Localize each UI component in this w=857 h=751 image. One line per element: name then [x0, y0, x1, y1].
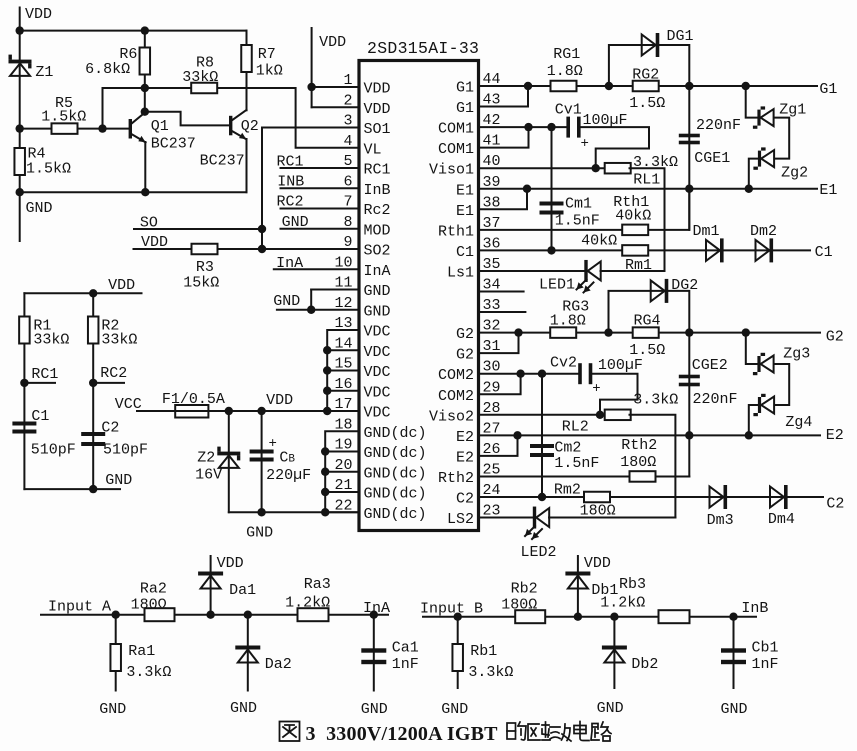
wire GND stub below label: [19, 192, 21, 241]
wire input B main line: [423, 616, 756, 618]
resistor R4: [14, 148, 25, 175]
svg-text:510pF: 510pF: [103, 442, 148, 459]
svg-text:GND: GND: [364, 283, 391, 300]
wire C1 line: [479, 249, 624, 251]
wire Ls1/LED1 line: [479, 270, 585, 272]
svg-text:COM1: COM1: [438, 121, 474, 138]
junction CGE1/Rth1/E1: [685, 185, 693, 193]
svg-text:Z2: Z2: [197, 450, 215, 467]
svg-text:VL: VL: [364, 141, 382, 158]
svg-text:+: +: [269, 436, 277, 452]
junction Z2 top: [225, 407, 233, 415]
svg-text:Dm2: Dm2: [750, 223, 777, 240]
svg-text:InB: InB: [741, 600, 768, 617]
svg-text:GND: GND: [361, 701, 388, 718]
junction Q1 collector node: [141, 108, 149, 116]
diode Dm3: [710, 485, 728, 509]
svg-text:COM2: COM2: [438, 388, 474, 405]
wire Db2 vertical: [613, 617, 615, 688]
svg-text:22: 22: [334, 497, 352, 514]
wire Rth1 right to E1: [648, 189, 690, 230]
svg-text:VDD: VDD: [266, 392, 293, 409]
svg-text:4: 4: [343, 133, 352, 150]
wire Q2 collector vertical to R7: [246, 73, 248, 111]
wire Ca1 vertical: [373, 615, 375, 691]
wire Q1 emitter vertical: [144, 142, 146, 192]
svg-text:Dm3: Dm3: [707, 512, 734, 529]
resistor R5: [52, 123, 78, 134]
resistor Rth1: [622, 225, 648, 236]
zener Zg2: [753, 147, 774, 169]
resistor Ra2: [145, 608, 175, 621]
svg-text:G2: G2: [456, 347, 474, 364]
svg-text:3 3300V/1200A IGBT: 3 3300V/1200A IGBT: [306, 723, 499, 745]
svg-text:15kΩ: 15kΩ: [183, 275, 219, 292]
wire Rb1 vertical: [457, 617, 459, 688]
svg-text:220nF: 220nF: [696, 117, 741, 134]
svg-text:1nF: 1nF: [392, 656, 419, 673]
svg-text:510pF: 510pF: [31, 442, 76, 459]
svg-text:E1: E1: [456, 203, 474, 220]
wire CB vertical: [261, 411, 263, 512]
resistor RL2: [605, 410, 631, 421]
junction VDC bus pin17: [323, 407, 331, 415]
svg-text:220nF: 220nF: [693, 391, 738, 408]
svg-text:Ra1: Ra1: [128, 643, 155, 660]
capacitor Cv1: [566, 117, 580, 138]
wire Zg2 to E1: [749, 159, 758, 189]
svg-text:11: 11: [334, 275, 352, 292]
svg-text:LED2: LED2: [521, 544, 557, 561]
svg-text:+: +: [592, 381, 600, 397]
wire G1 line mid: [576, 85, 634, 87]
resistor RG4: [633, 327, 659, 338]
svg-text:GND: GND: [364, 303, 391, 320]
wire Viso1/RL1 line: [479, 167, 607, 169]
svg-text:14: 14: [334, 335, 352, 352]
svg-text:Rth2: Rth2: [621, 437, 657, 454]
wire Db1 vertical: [577, 556, 579, 617]
svg-text:9: 9: [343, 234, 352, 251]
svg-text:F1/0.5A: F1/0.5A: [162, 391, 225, 408]
svg-text:1.5kΩ: 1.5kΩ: [26, 161, 71, 178]
junction Da2 node: [244, 611, 252, 619]
svg-text:33kΩ: 33kΩ: [101, 332, 137, 349]
resistor R3: [192, 244, 218, 255]
wire Q1-collector to Q2-base: [145, 112, 229, 126]
junction C2 bottom: [89, 485, 97, 493]
wire Rth2 right to E2: [655, 475, 689, 477]
svg-text:MOD: MOD: [364, 222, 391, 239]
wire pin31 stub: [479, 333, 519, 354]
svg-text:CGE2: CGE2: [692, 357, 728, 374]
svg-text:Cv1: Cv1: [555, 102, 582, 119]
wire pin8 stub: [281, 228, 360, 230]
svg-text:C2: C2: [826, 496, 844, 513]
svg-text:C2: C2: [101, 420, 119, 437]
wire Cv1 to Viso1 loop: [581, 127, 649, 168]
wire pin11 stub: [311, 289, 359, 291]
resistor R7: [241, 45, 252, 72]
svg-text:InA: InA: [364, 263, 391, 280]
junction GND(dc) bus pin20: [321, 468, 329, 476]
wire R1 column: [23, 293, 25, 489]
capacitor C1: [12, 422, 36, 434]
junction pin43/G1: [524, 82, 532, 90]
wire Ra1 vertical: [115, 615, 117, 691]
svg-text:BC237: BC237: [151, 136, 196, 153]
svg-text:VDC: VDC: [364, 405, 391, 422]
svg-text:19: 19: [334, 437, 352, 454]
transistor Q1: [129, 113, 146, 143]
wire pin41 stub: [479, 127, 529, 148]
svg-text:40kΩ: 40kΩ: [615, 208, 651, 225]
svg-text:Cb1: Cb1: [752, 640, 779, 657]
svg-text:Dm4: Dm4: [768, 511, 795, 528]
svg-text:Zg4: Zg4: [785, 414, 812, 431]
junction pin31/G2: [514, 328, 522, 336]
junction RC1: [20, 379, 28, 387]
svg-text:Viso2: Viso2: [429, 408, 474, 425]
wire VDD rail (left block): [24, 292, 141, 294]
capacitor Cm1: [540, 202, 564, 215]
diode DG2: [651, 279, 669, 303]
svg-text:G1: G1: [456, 80, 474, 97]
wire Q2 emitter vertical: [246, 139, 248, 192]
svg-text:6.8kΩ: 6.8kΩ: [85, 61, 130, 78]
svg-text:1.8Ω: 1.8Ω: [550, 313, 586, 330]
svg-text:Da2: Da2: [265, 656, 292, 673]
svg-text:12: 12: [334, 295, 352, 312]
capacitor CGE2: [679, 375, 700, 387]
capacitor Cb1: [721, 648, 746, 664]
junction Cm1 top: [547, 123, 555, 131]
zener Zg1: [753, 106, 774, 128]
svg-text:16: 16: [334, 376, 352, 393]
junction Q1 emitter/GND: [141, 188, 149, 196]
wire DG2 bypass: [609, 291, 690, 333]
svg-text:220µF: 220µF: [266, 467, 311, 484]
svg-text:15: 15: [334, 356, 352, 373]
svg-text:GND: GND: [99, 701, 126, 718]
wire Rth2 line: [479, 475, 631, 477]
svg-text:1.5nF: 1.5nF: [555, 213, 600, 230]
svg-text:40kΩ: 40kΩ: [581, 233, 617, 250]
svg-text:RC2: RC2: [100, 365, 127, 382]
svg-text:21: 21: [334, 477, 352, 494]
svg-text:R3: R3: [196, 259, 214, 276]
junction pin1 VDD: [307, 83, 315, 91]
IC U1 2SD315AI-33 body: [359, 61, 479, 531]
svg-text:GND: GND: [441, 701, 468, 718]
svg-text:GND(dc): GND(dc): [364, 465, 427, 482]
svg-text:8: 8: [343, 214, 352, 231]
svg-text:Input A: Input A: [48, 599, 111, 616]
junction VDD/R6: [141, 26, 149, 34]
wire LS2/LED2 line: [479, 517, 533, 519]
junction Cm1 bottom / C1 line: [547, 246, 555, 254]
wire pin33 stub: [479, 311, 526, 313]
svg-text:Ra3: Ra3: [304, 576, 331, 593]
svg-text:3.3kΩ: 3.3kΩ: [126, 664, 171, 681]
svg-text:180Ω: 180Ω: [620, 454, 656, 471]
wire Cv2 to Viso2 loop: [592, 374, 637, 415]
svg-text:COM2: COM2: [438, 367, 474, 384]
wire G1 line mid2: [658, 85, 817, 87]
wire pin20 stub: [325, 471, 359, 473]
wire R2 column: [92, 293, 94, 489]
junction RC2: [89, 379, 97, 387]
svg-text:GND: GND: [26, 200, 53, 217]
svg-text:SO1: SO1: [364, 121, 391, 138]
wire pin18 stub+bus: [325, 431, 359, 512]
zener Zg4: [753, 394, 774, 416]
wire R6 vertical: [144, 31, 146, 88]
svg-text:R7: R7: [258, 46, 276, 63]
wire E2 line: [479, 434, 821, 436]
junction Ca1 node: [370, 611, 378, 619]
svg-text:13: 13: [334, 315, 352, 332]
svg-text:GND: GND: [230, 700, 257, 717]
junction Cb1 node: [729, 613, 737, 621]
wire G2 line: [479, 332, 552, 334]
svg-text:Rc2: Rc2: [364, 202, 391, 219]
svg-text:VDD: VDD: [108, 277, 135, 294]
junction Zg4/E2: [745, 431, 753, 439]
junction pin26/E2: [513, 431, 521, 439]
resistor RG2: [633, 81, 659, 92]
wire DG1 bypass: [609, 45, 689, 86]
wire pin2 stub: [312, 106, 359, 108]
wire LED1 right: [601, 270, 665, 272]
svg-text:LED1: LED1: [539, 277, 575, 294]
capacitor Cm2: [530, 444, 554, 457]
svg-text:Viso1: Viso1: [429, 162, 474, 179]
svg-text:CGE1: CGE1: [694, 150, 730, 167]
junction Zg3 branch: [742, 328, 750, 336]
wire pin11-12 tie: [310, 290, 312, 310]
svg-text:LS2: LS2: [447, 511, 474, 528]
junction Z1/R5/R4 node: [16, 124, 24, 132]
wire Q1 collector node vertical: [144, 88, 146, 112]
svg-text:Ls1: Ls1: [447, 264, 474, 281]
wire pin6 stub: [281, 187, 360, 189]
svg-text:10: 10: [334, 254, 352, 271]
svg-text:100µF: 100µF: [598, 357, 643, 374]
wire CGE1 vertical: [688, 86, 690, 230]
svg-text:17: 17: [334, 396, 352, 413]
capacitor Cv2: [578, 363, 592, 384]
caption hanzi DE: [507, 722, 526, 740]
svg-text:C2: C2: [456, 491, 474, 508]
wire C1 line right: [648, 249, 811, 251]
svg-text:Zg3: Zg3: [783, 346, 810, 363]
svg-text:E2: E2: [826, 427, 844, 444]
svg-text:RG4: RG4: [634, 313, 661, 330]
diode Dm1: [706, 238, 724, 262]
svg-text:BC237: BC237: [200, 153, 245, 170]
wire RL2 to LED2 vertical: [630, 415, 676, 518]
svg-text:Rth2: Rth2: [438, 470, 474, 487]
wire Cm2 vertical: [541, 374, 543, 497]
svg-text:Da1: Da1: [229, 582, 256, 599]
wire pin21 stub: [325, 491, 359, 493]
svg-text:GND: GND: [246, 525, 273, 542]
wire G1 line: [479, 85, 552, 87]
resistor R2: [88, 317, 99, 344]
wire input A main line: [41, 614, 388, 616]
svg-text:VDD: VDD: [364, 101, 391, 118]
wire Zg4 to E2: [749, 405, 758, 435]
junction GND(dc) bus pin19: [321, 447, 329, 455]
svg-text:GND: GND: [597, 700, 624, 717]
wire GND rail (top-left): [20, 141, 247, 192]
diode Db1: [565, 572, 590, 589]
svg-text:C1: C1: [31, 408, 49, 425]
wire pin3 stub: [262, 127, 359, 129]
junction Rb1 branch: [454, 613, 462, 621]
svg-text:16V: 16V: [195, 467, 222, 484]
wire pin38 stub: [479, 189, 528, 210]
wire COM1 line: [479, 126, 567, 128]
svg-text:6: 6: [343, 173, 352, 190]
svg-text:RG2: RG2: [632, 67, 659, 84]
caption hanzi QU: [528, 722, 550, 740]
svg-text:GND(dc): GND(dc): [364, 506, 427, 523]
svg-text:Dm1: Dm1: [693, 223, 720, 240]
wire VDD rail top: [20, 30, 247, 32]
junction CB bottom / GND rail: [257, 508, 265, 516]
resistor Rb2: [515, 610, 545, 623]
svg-text:1.2kΩ: 1.2kΩ: [285, 595, 330, 612]
svg-text:C1: C1: [815, 244, 833, 261]
junction CB top: [257, 407, 265, 415]
svg-text:5: 5: [343, 153, 352, 170]
caption hanzi LU: [591, 722, 611, 741]
wire R6-bottom to Q1-base-node vertical: [102, 88, 104, 129]
svg-text:DG1: DG1: [667, 28, 694, 45]
wire pin17 stub: [327, 410, 359, 412]
junction R6/R8 node: [141, 84, 149, 92]
svg-text:VDC: VDC: [364, 324, 391, 341]
diode Da1: [198, 572, 223, 589]
wire Cb1 vertical: [733, 617, 735, 688]
resistor Rm2: [584, 492, 610, 503]
svg-text:VDD: VDD: [584, 555, 611, 572]
capacitor CGE1: [679, 134, 700, 145]
resistor R1: [19, 317, 30, 344]
junction Zg2/E1: [745, 185, 753, 193]
wire Zg3-Zg4 link: [774, 364, 789, 405]
wire G2 line mid2: [659, 332, 821, 334]
junction DG2 left: [604, 328, 612, 336]
wire R7 vertical: [246, 31, 248, 45]
svg-text:1kΩ: 1kΩ: [256, 63, 283, 80]
resistor Rb3: [659, 610, 690, 623]
resistor Rm1: [622, 245, 648, 256]
junction GND(dc) bus pin21: [321, 488, 329, 496]
junction SO2 line: [258, 245, 266, 253]
svg-text:GND(dc): GND(dc): [364, 486, 427, 503]
svg-text:33kΩ: 33kΩ: [33, 332, 69, 349]
svg-text:18: 18: [334, 416, 352, 433]
svg-text:VDD: VDD: [319, 34, 346, 51]
resistor Rth2: [630, 471, 656, 482]
svg-text:G2: G2: [826, 329, 844, 346]
svg-text:VDC: VDC: [364, 344, 391, 361]
junction Cm2 top: [538, 370, 546, 378]
wire SO bus: [134, 228, 262, 230]
svg-text:Cm2: Cm2: [554, 440, 581, 457]
wire Z2 vertical: [228, 411, 230, 512]
svg-text:COM1: COM1: [438, 141, 474, 158]
svg-text:2: 2: [343, 92, 352, 109]
resistor RG1: [551, 81, 577, 92]
svg-text:C1: C1: [456, 244, 474, 261]
svg-text:Rb1: Rb1: [470, 643, 497, 660]
svg-text:Cv2: Cv2: [550, 355, 577, 372]
wire pin26 stub: [479, 435, 518, 456]
junction VDD/Z1: [16, 26, 24, 34]
resistor Ra3: [298, 608, 329, 621]
wire R4 branch vertical: [19, 129, 21, 193]
svg-text:1: 1: [343, 72, 352, 89]
wire VCC-VDD line to pin17: [137, 410, 359, 412]
wire C2 line: [479, 496, 585, 498]
svg-text:GND(dc): GND(dc): [364, 425, 427, 442]
svg-text:+: +: [581, 136, 589, 152]
caption hanzi TU (figure): [280, 722, 300, 742]
svg-text:VDC: VDC: [364, 364, 391, 381]
svg-text:3.3kΩ: 3.3kΩ: [633, 392, 678, 409]
wire Z1 branch vertical: [19, 64, 21, 129]
svg-text:1.5kΩ: 1.5kΩ: [41, 109, 86, 126]
svg-text:Rb3: Rb3: [619, 576, 646, 593]
wire GND rail (under IC): [229, 511, 359, 513]
svg-text:Db2: Db2: [631, 656, 658, 673]
zener Z1: [9, 55, 32, 76]
svg-text:VDD: VDD: [25, 6, 52, 23]
svg-text:1.8Ω: 1.8Ω: [547, 63, 583, 80]
junction CGE2/Rth2/E2: [685, 431, 693, 439]
resistor R8: [191, 83, 217, 94]
svg-text:SO2: SO2: [364, 243, 391, 260]
junction Da1 node: [206, 611, 214, 619]
junction R4/GND rail: [16, 188, 24, 196]
junction DG1 left: [605, 82, 613, 90]
resistor Ra1: [110, 644, 121, 671]
junction Cv2 loop / Viso2: [596, 411, 604, 419]
wire pin14 stub: [327, 349, 359, 351]
wire LED2 right: [549, 517, 675, 519]
wire CGE2 vertical: [688, 333, 690, 477]
wire Cm1 vertical: [551, 127, 553, 250]
junction R5/Q1 base feed: [98, 124, 106, 132]
svg-text:Z1: Z1: [35, 64, 53, 81]
svg-text:Zg2: Zg2: [781, 165, 808, 182]
svg-text:DG2: DG2: [671, 277, 698, 294]
junction DG1 right / CGE1 top: [685, 82, 693, 90]
capacitor CB: [250, 450, 274, 462]
diode Da2: [235, 646, 260, 663]
svg-text:G2: G2: [456, 326, 474, 343]
resistor R6: [140, 48, 151, 75]
wire Rth1 line: [479, 229, 624, 231]
wire Zg1-Zg2 link: [774, 118, 789, 159]
wire pin10 stub: [274, 268, 359, 270]
wire E1 line: [479, 188, 818, 190]
wire Da2 vertical: [247, 615, 249, 691]
